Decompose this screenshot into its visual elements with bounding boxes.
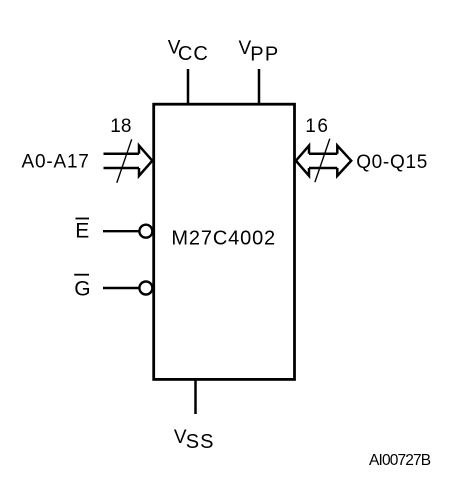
pin VSS — [194, 380, 197, 414]
label VSS — [174, 427, 215, 453]
label 18 — [110, 116, 131, 137]
EPROM block U1 — [154, 104, 295, 379]
inversion bubble on E — [139, 225, 152, 238]
svg-text:M27C4002: M27C4002 — [171, 227, 276, 249]
svg-text:E: E — [75, 220, 89, 243]
pin VCC — [187, 69, 190, 104]
label 16 — [305, 116, 329, 137]
label E (active low) — [75, 219, 89, 243]
output enable wire G — [103, 287, 139, 289]
chip enable wire E — [103, 230, 139, 232]
address bus arrow A0-A17 — [104, 146, 153, 176]
label VPP — [239, 38, 280, 65]
figure ID AI00727B — [369, 452, 431, 469]
svg-text:PP: PP — [250, 43, 279, 65]
label M27C4002 — [171, 227, 276, 249]
svg-text:CC: CC — [178, 43, 209, 65]
inversion bubble on G — [139, 282, 152, 295]
data bus arrow Q0-Q15 — [296, 146, 351, 176]
svg-text:18: 18 — [110, 116, 131, 137]
label A0-A17 — [22, 152, 90, 173]
svg-text:A0-A17: A0-A17 — [22, 152, 90, 173]
label G (active low) — [74, 275, 90, 301]
svg-text:16: 16 — [305, 116, 329, 137]
svg-text:AI00727B: AI00727B — [369, 452, 431, 469]
pin VPP — [258, 69, 261, 104]
bus width slash 16 — [315, 139, 330, 183]
label VCC — [168, 37, 209, 65]
svg-text:SS: SS — [186, 431, 215, 453]
svg-text:G: G — [74, 278, 90, 301]
svg-text:Q0-Q15: Q0-Q15 — [356, 152, 428, 173]
bus width slash 18 — [117, 139, 132, 183]
label Q0-Q15 — [356, 152, 428, 173]
